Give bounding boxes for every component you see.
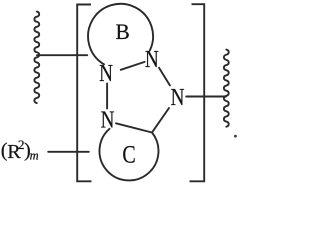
period (234, 135, 237, 138)
bond N3-C5 (152, 108, 169, 133)
svg-text:N: N (145, 46, 159, 73)
svg-text:N: N (171, 84, 185, 111)
atom N3 (171, 84, 185, 111)
atom N1 (99, 60, 113, 87)
atom N4 (101, 106, 115, 133)
left bracket (77, 5, 91, 182)
svg-text:m: m (30, 149, 39, 163)
bond N4-N1 (106, 84, 108, 109)
svg-text:N: N (99, 60, 113, 87)
substituent label (R2)m (1, 137, 39, 163)
ring C label (122, 140, 135, 168)
ring B label (115, 18, 129, 44)
right bracket (190, 4, 205, 181)
bond N3 right attachment (186, 96, 226, 98)
svg-text:N: N (101, 106, 115, 133)
svg-text:C: C (122, 140, 135, 168)
bond C5-N4 (116, 123, 152, 132)
atom N2 (145, 46, 159, 73)
wavy bond left (34, 12, 39, 103)
bond R2 attachment (48, 151, 89, 153)
bond N2-N3 (159, 68, 170, 86)
wavy bond right (224, 50, 229, 127)
ring B circle (88, 4, 153, 64)
svg-text:B: B (115, 18, 129, 44)
bond left attachment (37, 54, 87, 56)
bond N1-N2 (121, 62, 145, 70)
ring C circle (99, 129, 158, 181)
